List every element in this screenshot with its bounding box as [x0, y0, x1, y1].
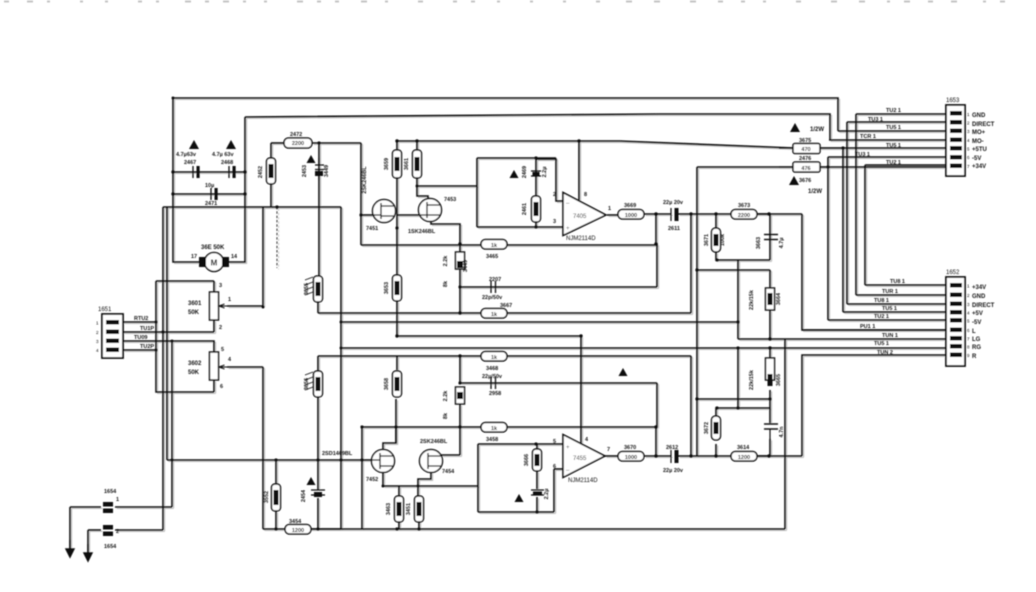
svg-text:RTU2: RTU2: [134, 316, 148, 322]
svg-text:1000: 1000: [625, 213, 637, 219]
svg-text:3602: 3602: [188, 361, 202, 367]
svg-text:-5V: -5V: [972, 156, 981, 162]
svg-text:1/2W: 1/2W: [808, 189, 822, 195]
svg-text:1654: 1654: [104, 489, 117, 495]
svg-text:2: 2: [967, 121, 970, 126]
svg-text:3: 3: [967, 129, 970, 134]
svg-text:8: 8: [967, 345, 970, 350]
svg-text:3671: 3671: [704, 234, 710, 246]
svg-text:+: +: [566, 445, 570, 451]
svg-text:1: 1: [967, 112, 970, 117]
svg-text:TU2 1: TU2 1: [886, 108, 901, 114]
svg-text:470: 470: [801, 147, 810, 153]
svg-text:3667: 3667: [500, 303, 512, 309]
svg-text:RG: RG: [972, 345, 981, 351]
svg-text:3664: 3664: [776, 292, 782, 305]
svg-text:3656: 3656: [304, 378, 310, 390]
svg-text:22µ 20v: 22µ 20v: [663, 200, 684, 206]
svg-text:TU8 1: TU8 1: [874, 298, 889, 304]
svg-text:TU2P: TU2P: [140, 344, 154, 350]
svg-text:3468: 3468: [486, 366, 498, 372]
svg-text:3670: 3670: [624, 445, 636, 451]
svg-text:14: 14: [231, 254, 238, 260]
svg-text:22µ 20v: 22µ 20v: [663, 468, 684, 474]
svg-text:2612: 2612: [666, 445, 678, 451]
svg-text:TU3 1: TU3 1: [868, 117, 883, 123]
svg-text:3449: 3449: [463, 260, 469, 272]
svg-text:+5V: +5V: [972, 311, 983, 317]
svg-text:4: 4: [585, 437, 589, 443]
svg-text:5: 5: [967, 147, 970, 152]
svg-text:5: 5: [553, 439, 556, 445]
svg-text:2958: 2958: [489, 391, 501, 397]
svg-text:TU8 1: TU8 1: [890, 279, 905, 285]
svg-text:+34V: +34V: [972, 164, 986, 170]
svg-text:2200: 2200: [292, 141, 304, 147]
svg-text:3449: 3449: [324, 165, 330, 177]
svg-text:1k: 1k: [491, 355, 498, 361]
svg-text:7453: 7453: [444, 197, 456, 203]
svg-text:17: 17: [191, 254, 197, 260]
svg-text:3661: 3661: [404, 158, 410, 170]
svg-text:TUR 1: TUR 1: [882, 289, 898, 295]
svg-text:8k: 8k: [443, 280, 449, 287]
svg-text:1k: 1k: [491, 312, 498, 318]
svg-text:+34V: +34V: [972, 285, 986, 291]
svg-text:NJM2114D: NJM2114D: [568, 478, 598, 484]
svg-text:4: 4: [967, 311, 970, 316]
svg-text:GND: GND: [972, 113, 986, 119]
svg-text:MO+: MO+: [972, 130, 986, 136]
svg-text:6: 6: [553, 464, 556, 470]
svg-text:-5V: -5V: [972, 320, 981, 326]
svg-text:GND: GND: [972, 294, 986, 300]
svg-text:2452: 2452: [258, 166, 264, 178]
svg-text:100k: 100k: [720, 233, 726, 246]
svg-text:5: 5: [967, 319, 970, 324]
svg-text:50K: 50K: [188, 310, 200, 316]
svg-text:22µ/50v: 22µ/50v: [482, 374, 503, 380]
svg-text:7451: 7451: [366, 226, 378, 232]
svg-text:TU5 1: TU5 1: [886, 143, 901, 149]
svg-text:7455: 7455: [573, 456, 587, 462]
svg-text:4.7µ63v: 4.7µ63v: [176, 152, 197, 158]
svg-text:TU2 1: TU2 1: [886, 160, 901, 166]
svg-text:6: 6: [967, 328, 970, 333]
svg-text:4.7µ 63v: 4.7µ 63v: [212, 152, 234, 158]
svg-text:3: 3: [553, 219, 556, 225]
svg-text:7405: 7405: [573, 214, 587, 220]
svg-text:5: 5: [221, 347, 224, 353]
svg-text:2461: 2461: [522, 203, 528, 215]
svg-text:3659: 3659: [384, 158, 390, 170]
svg-text:2.2k: 2.2k: [443, 390, 449, 402]
svg-text:9: 9: [967, 353, 970, 358]
svg-text:3665: 3665: [776, 374, 782, 386]
svg-text:3458: 3458: [486, 437, 498, 443]
svg-text:1652: 1652: [946, 270, 960, 276]
svg-text:1SK246BL: 1SK246BL: [408, 229, 436, 235]
svg-text:1200: 1200: [292, 528, 304, 534]
svg-text:1651: 1651: [98, 307, 112, 313]
svg-text:3: 3: [219, 283, 222, 289]
svg-text:3676: 3676: [799, 178, 811, 184]
svg-text:2: 2: [553, 192, 556, 198]
svg-text:8: 8: [584, 192, 587, 198]
svg-text:+5TU: +5TU: [972, 147, 987, 153]
svg-text:1654: 1654: [104, 544, 117, 550]
svg-text:PU1 1: PU1 1: [860, 324, 875, 330]
svg-text:6: 6: [220, 384, 223, 390]
svg-text:TU2 1: TU2 1: [874, 314, 889, 320]
svg-text:8k: 8k: [443, 412, 449, 419]
svg-text:4: 4: [228, 357, 232, 363]
svg-text:2.2µ: 2.2µ: [544, 489, 550, 500]
svg-text:1: 1: [228, 297, 231, 303]
svg-text:3: 3: [967, 302, 970, 307]
svg-text:LG: LG: [972, 337, 981, 343]
svg-text:2SK246BL: 2SK246BL: [362, 166, 368, 194]
svg-text:TU1P: TU1P: [140, 326, 154, 332]
svg-text:2453: 2453: [302, 165, 308, 177]
svg-text:1200: 1200: [738, 455, 750, 461]
svg-text:3669: 3669: [624, 203, 636, 209]
svg-text:1: 1: [96, 321, 99, 326]
svg-text:3463: 3463: [386, 503, 392, 515]
svg-text:2: 2: [116, 529, 119, 535]
svg-text:1000: 1000: [625, 455, 637, 461]
svg-text:TU5 1: TU5 1: [886, 125, 901, 131]
svg-text:2471: 2471: [205, 201, 217, 207]
svg-text:22k/15k: 22k/15k: [749, 289, 755, 310]
svg-text:+: +: [566, 226, 570, 232]
svg-text:TU3 1: TU3 1: [855, 152, 870, 158]
svg-text:3666: 3666: [524, 454, 530, 466]
svg-text:3663: 3663: [756, 237, 762, 249]
svg-text:TUN 1: TUN 1: [882, 333, 898, 339]
svg-text:7: 7: [967, 164, 970, 169]
svg-text:1: 1: [608, 206, 611, 212]
svg-text:36E 50K: 36E 50K: [201, 245, 225, 251]
svg-text:7: 7: [607, 447, 610, 453]
svg-text:6: 6: [967, 155, 970, 160]
svg-text:10µ: 10µ: [205, 183, 214, 189]
svg-text:M: M: [211, 259, 218, 268]
svg-text:2: 2: [219, 325, 222, 331]
svg-text:2472: 2472: [290, 132, 302, 138]
svg-text:2467: 2467: [184, 160, 196, 166]
svg-text:476: 476: [801, 166, 810, 172]
svg-text:L: L: [972, 329, 976, 335]
svg-text:3: 3: [96, 339, 99, 344]
svg-text:7452: 7452: [366, 477, 378, 483]
svg-text:3601: 3601: [188, 301, 202, 307]
svg-text:1/2W: 1/2W: [810, 127, 824, 133]
svg-text:2.2µ: 2.2µ: [542, 167, 548, 178]
svg-text:4: 4: [96, 348, 99, 353]
svg-text:2SK246BL: 2SK246BL: [420, 439, 448, 445]
svg-text:2468: 2468: [221, 160, 233, 166]
svg-text:2: 2: [967, 293, 970, 298]
svg-text:TCR 1: TCR 1: [860, 134, 876, 140]
svg-text:7: 7: [967, 337, 970, 342]
svg-text:TUN 2: TUN 2: [877, 350, 893, 356]
svg-text:1k: 1k: [491, 243, 498, 249]
svg-text:2SD1469BL: 2SD1469BL: [322, 451, 353, 457]
svg-text:3454: 3454: [289, 519, 302, 525]
svg-text:3451: 3451: [406, 503, 412, 515]
svg-text:3653: 3653: [384, 282, 390, 294]
svg-text:TU5 1: TU5 1: [874, 341, 889, 347]
svg-text:R: R: [972, 354, 977, 360]
svg-text:2207: 2207: [489, 277, 501, 283]
svg-text:3673: 3673: [738, 203, 750, 209]
svg-text:3614: 3614: [737, 445, 750, 451]
svg-text:3655: 3655: [304, 283, 310, 295]
svg-text:4.7µ: 4.7µ: [779, 238, 785, 249]
svg-text:22p/50v: 22p/50v: [482, 295, 503, 301]
svg-text:4.7n: 4.7n: [779, 426, 785, 438]
svg-text:3465: 3465: [486, 254, 498, 260]
svg-text:MO-: MO-: [972, 139, 984, 145]
svg-text:NJM2114D: NJM2114D: [566, 236, 596, 242]
svg-text:1653: 1653: [946, 98, 960, 104]
svg-text:50K: 50K: [188, 370, 200, 376]
svg-text:3672: 3672: [704, 422, 710, 434]
svg-text:1: 1: [116, 497, 119, 503]
svg-text:3675: 3675: [799, 138, 811, 144]
svg-text:2200: 2200: [738, 213, 750, 219]
svg-text:2476: 2476: [799, 156, 811, 162]
svg-text:1: 1: [967, 284, 970, 289]
svg-text:1k: 1k: [491, 426, 498, 432]
svg-text:2: 2: [96, 330, 99, 335]
svg-text:DIRECT: DIRECT: [972, 303, 995, 309]
svg-text:TU09: TU09: [134, 335, 147, 341]
svg-text:2454: 2454: [301, 489, 307, 502]
svg-text:2611: 2611: [668, 226, 680, 232]
svg-text:2.2k: 2.2k: [443, 255, 449, 267]
svg-text:3552: 3552: [264, 491, 270, 503]
svg-text:3658: 3658: [384, 378, 390, 390]
svg-text:22k/15k: 22k/15k: [749, 369, 755, 390]
svg-text:7454: 7454: [442, 469, 455, 475]
svg-text:TU5 1: TU5 1: [882, 306, 897, 312]
svg-text:DIRECT: DIRECT: [972, 122, 995, 128]
svg-text:2469: 2469: [522, 166, 528, 178]
svg-text:4: 4: [967, 138, 970, 143]
